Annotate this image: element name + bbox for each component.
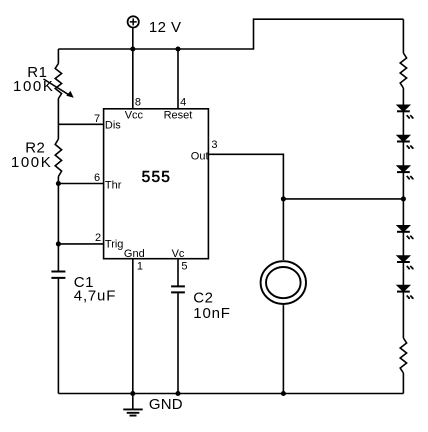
svg-text:Out: Out bbox=[191, 150, 209, 162]
svg-text:Vcc: Vcc bbox=[125, 109, 144, 121]
svg-text:7: 7 bbox=[94, 113, 100, 125]
svg-text:Gnd: Gnd bbox=[124, 248, 145, 260]
svg-text:555: 555 bbox=[142, 169, 171, 186]
svg-text:8: 8 bbox=[135, 96, 141, 108]
svg-text:5: 5 bbox=[181, 261, 187, 273]
svg-text:4,7uF: 4,7uF bbox=[74, 287, 116, 304]
svg-text:Dis: Dis bbox=[105, 120, 121, 132]
svg-text:100K: 100K bbox=[11, 154, 52, 171]
svg-text:6: 6 bbox=[94, 172, 100, 184]
svg-text:Reset: Reset bbox=[164, 109, 193, 121]
svg-text:Trig: Trig bbox=[105, 239, 124, 251]
svg-text:GND: GND bbox=[149, 396, 183, 413]
svg-text:4: 4 bbox=[180, 96, 186, 108]
svg-text:12 V: 12 V bbox=[149, 19, 181, 36]
svg-text:Thr: Thr bbox=[105, 180, 122, 192]
svg-text:2: 2 bbox=[95, 232, 101, 244]
svg-text:10nF: 10nF bbox=[193, 305, 230, 322]
svg-text:Vc: Vc bbox=[172, 248, 185, 260]
svg-text:100K: 100K bbox=[13, 78, 54, 95]
svg-text:3: 3 bbox=[211, 139, 217, 151]
svg-text:1: 1 bbox=[137, 261, 143, 273]
